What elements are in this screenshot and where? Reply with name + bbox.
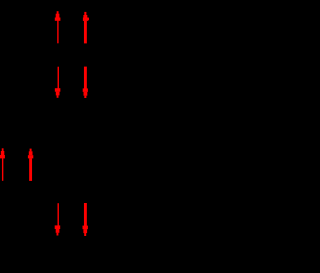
current arrow I7 (thin, pointing down, bottom branch left) [55,203,61,235]
current arrow I3 (thin, pointing down, upper middle branch left) [55,67,61,98]
current arrow I8 (thick, pointing down, bottom branch right) [83,203,88,236]
current arrow I6 (thick, pointing up, left branch inner) [28,149,33,181]
current arrow I4 (thick, pointing down, upper middle branch right) [83,67,88,98]
current arrow I2 (thick, pointing up, top branch right) [83,12,89,44]
current arrow I1 (thin, pointing up, top branch left) [55,11,61,43]
current arrow I5 (thin, pointing up, left branch outer) [0,148,5,181]
